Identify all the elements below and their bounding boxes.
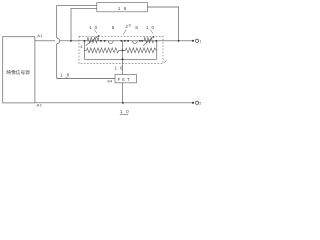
- FET box Q1: [115, 75, 137, 83]
- node: center mid: [124, 40, 126, 42]
- node: center left: [120, 40, 122, 42]
- variable resistor R1 (left, value 10): [87, 37, 99, 42]
- node: right end of network: [155, 40, 157, 42]
- terminal ring B1: [195, 39, 198, 42]
- node: FET source on bottom line: [122, 102, 124, 104]
- svg-text:84: 84: [107, 78, 113, 83]
- svg-text:1 0: 1 0: [146, 25, 155, 30]
- node: center on bottom conductor: [122, 58, 124, 60]
- arrow of R2: [143, 36, 154, 45]
- underline of label 10 bottom: [120, 113, 128, 116]
- svg-text:1 8: 1 8: [60, 73, 70, 78]
- terminal dot B1: [192, 40, 194, 42]
- node: center on long resistor: [122, 49, 124, 51]
- dashed equalizer enclosure: [79, 36, 163, 63]
- node: tap b: [104, 40, 106, 42]
- svg-text:1 0: 1 0: [120, 109, 130, 114]
- wire: bottom return line A2 to B2: [35, 102, 193, 104]
- resistor R3 left half of long element: [84, 48, 122, 53]
- svg-text:映像信号源: 映像信号源: [6, 69, 30, 76]
- arrow of R1: [86, 35, 100, 46]
- wire: feedback right from box 16 down to main line: [148, 7, 179, 41]
- node: tap a: [100, 40, 102, 42]
- node: feedback right on main line: [178, 40, 180, 42]
- resistor R4 right half of long element: [123, 48, 157, 53]
- wire: top main line A1 to B1: [35, 40, 55, 42]
- lead line for label 10 right: [150, 30, 153, 34]
- terminal ring B2: [195, 101, 198, 104]
- terminal dot B2: [192, 102, 194, 104]
- node: tap d: [141, 40, 143, 42]
- wire: bottom conductor of delay element: [84, 58, 156, 60]
- wire: top main line after crossover: [60, 40, 193, 42]
- node: tap c: [139, 40, 141, 42]
- wire: gate vertical crossover jog at main line: [57, 38, 60, 44]
- svg-text:1 6: 1 6: [118, 6, 128, 11]
- wire: FET source down to bottom line: [122, 83, 124, 103]
- svg-text:A2: A2: [37, 103, 43, 108]
- svg-text:FET: FET: [118, 77, 132, 82]
- svg-text:1 6: 1 6: [115, 66, 124, 71]
- wire: gate horizontal line to FET: [57, 78, 115, 80]
- video source box U1: [3, 37, 35, 103]
- wire: right end vertical inside dashed box: [156, 41, 158, 60]
- capacitor C1 dip (left, value 8): [108, 41, 113, 44]
- node: feedback left on main line: [70, 40, 72, 42]
- node: center right: [127, 40, 129, 42]
- wire: center tap vertical down to FET: [122, 41, 124, 75]
- wire: gate vertical lower part: [56, 44, 58, 79]
- svg-text:A1: A1: [37, 33, 43, 38]
- wire: left end vertical inside dashed box: [83, 41, 85, 60]
- wire: feedback outer left horizontal to box 16: [57, 6, 97, 38]
- lead line for label 18: [65, 77, 67, 78]
- variable resistor R2 (right, value 10): [144, 37, 154, 42]
- junction dots: [70, 40, 194, 104]
- lead line for label 20: [123, 30, 126, 35]
- svg-text:1: 1: [199, 40, 201, 44]
- lead line for label 10 left: [94, 30, 97, 34]
- capacitor C2 dip (right, value 8): [132, 41, 137, 44]
- wire: feedback inner left to box 16: [71, 8, 97, 40]
- svg-text:2: 2: [199, 102, 201, 106]
- node: left end of network: [83, 40, 85, 42]
- amplifier box 16: [97, 3, 148, 12]
- svg-text:1 0: 1 0: [89, 25, 98, 30]
- lead line at dashed corner: [164, 60, 166, 63]
